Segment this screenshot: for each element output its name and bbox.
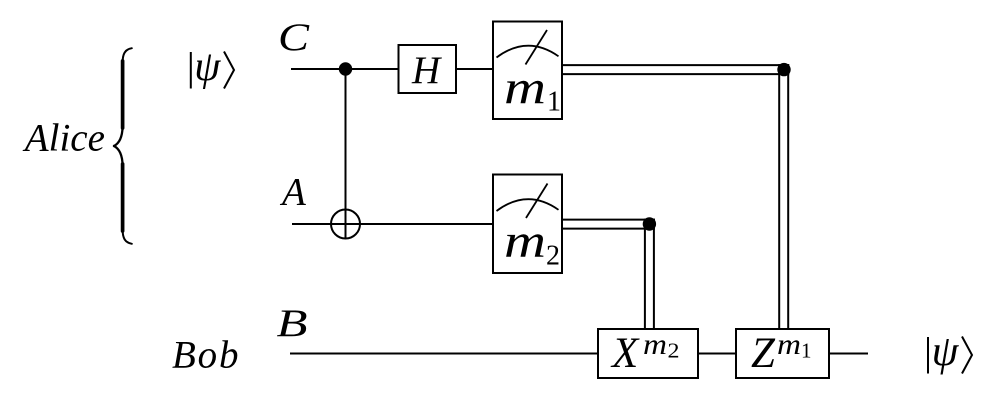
svg-text:m: m bbox=[504, 215, 546, 268]
svg-text:m: m bbox=[643, 328, 667, 361]
svg-text:Alice: Alice bbox=[22, 117, 105, 160]
svg-text:ψ: ψ bbox=[932, 328, 960, 375]
svg-text:m: m bbox=[504, 62, 546, 115]
svg-text:X: X bbox=[610, 330, 640, 377]
svg-text:2: 2 bbox=[668, 339, 680, 363]
svg-text:B: B bbox=[277, 302, 308, 345]
svg-text:Bob: Bob bbox=[172, 334, 239, 377]
svg-text:1: 1 bbox=[547, 87, 561, 118]
svg-text:2: 2 bbox=[546, 240, 560, 271]
svg-text:ψ: ψ bbox=[194, 44, 221, 90]
svg-text:m: m bbox=[777, 328, 801, 361]
svg-text:A: A bbox=[279, 171, 306, 214]
svg-text:H: H bbox=[411, 49, 442, 92]
svg-text:1: 1 bbox=[801, 339, 812, 363]
svg-text:Z: Z bbox=[751, 330, 776, 377]
svg-text:C: C bbox=[278, 16, 310, 59]
